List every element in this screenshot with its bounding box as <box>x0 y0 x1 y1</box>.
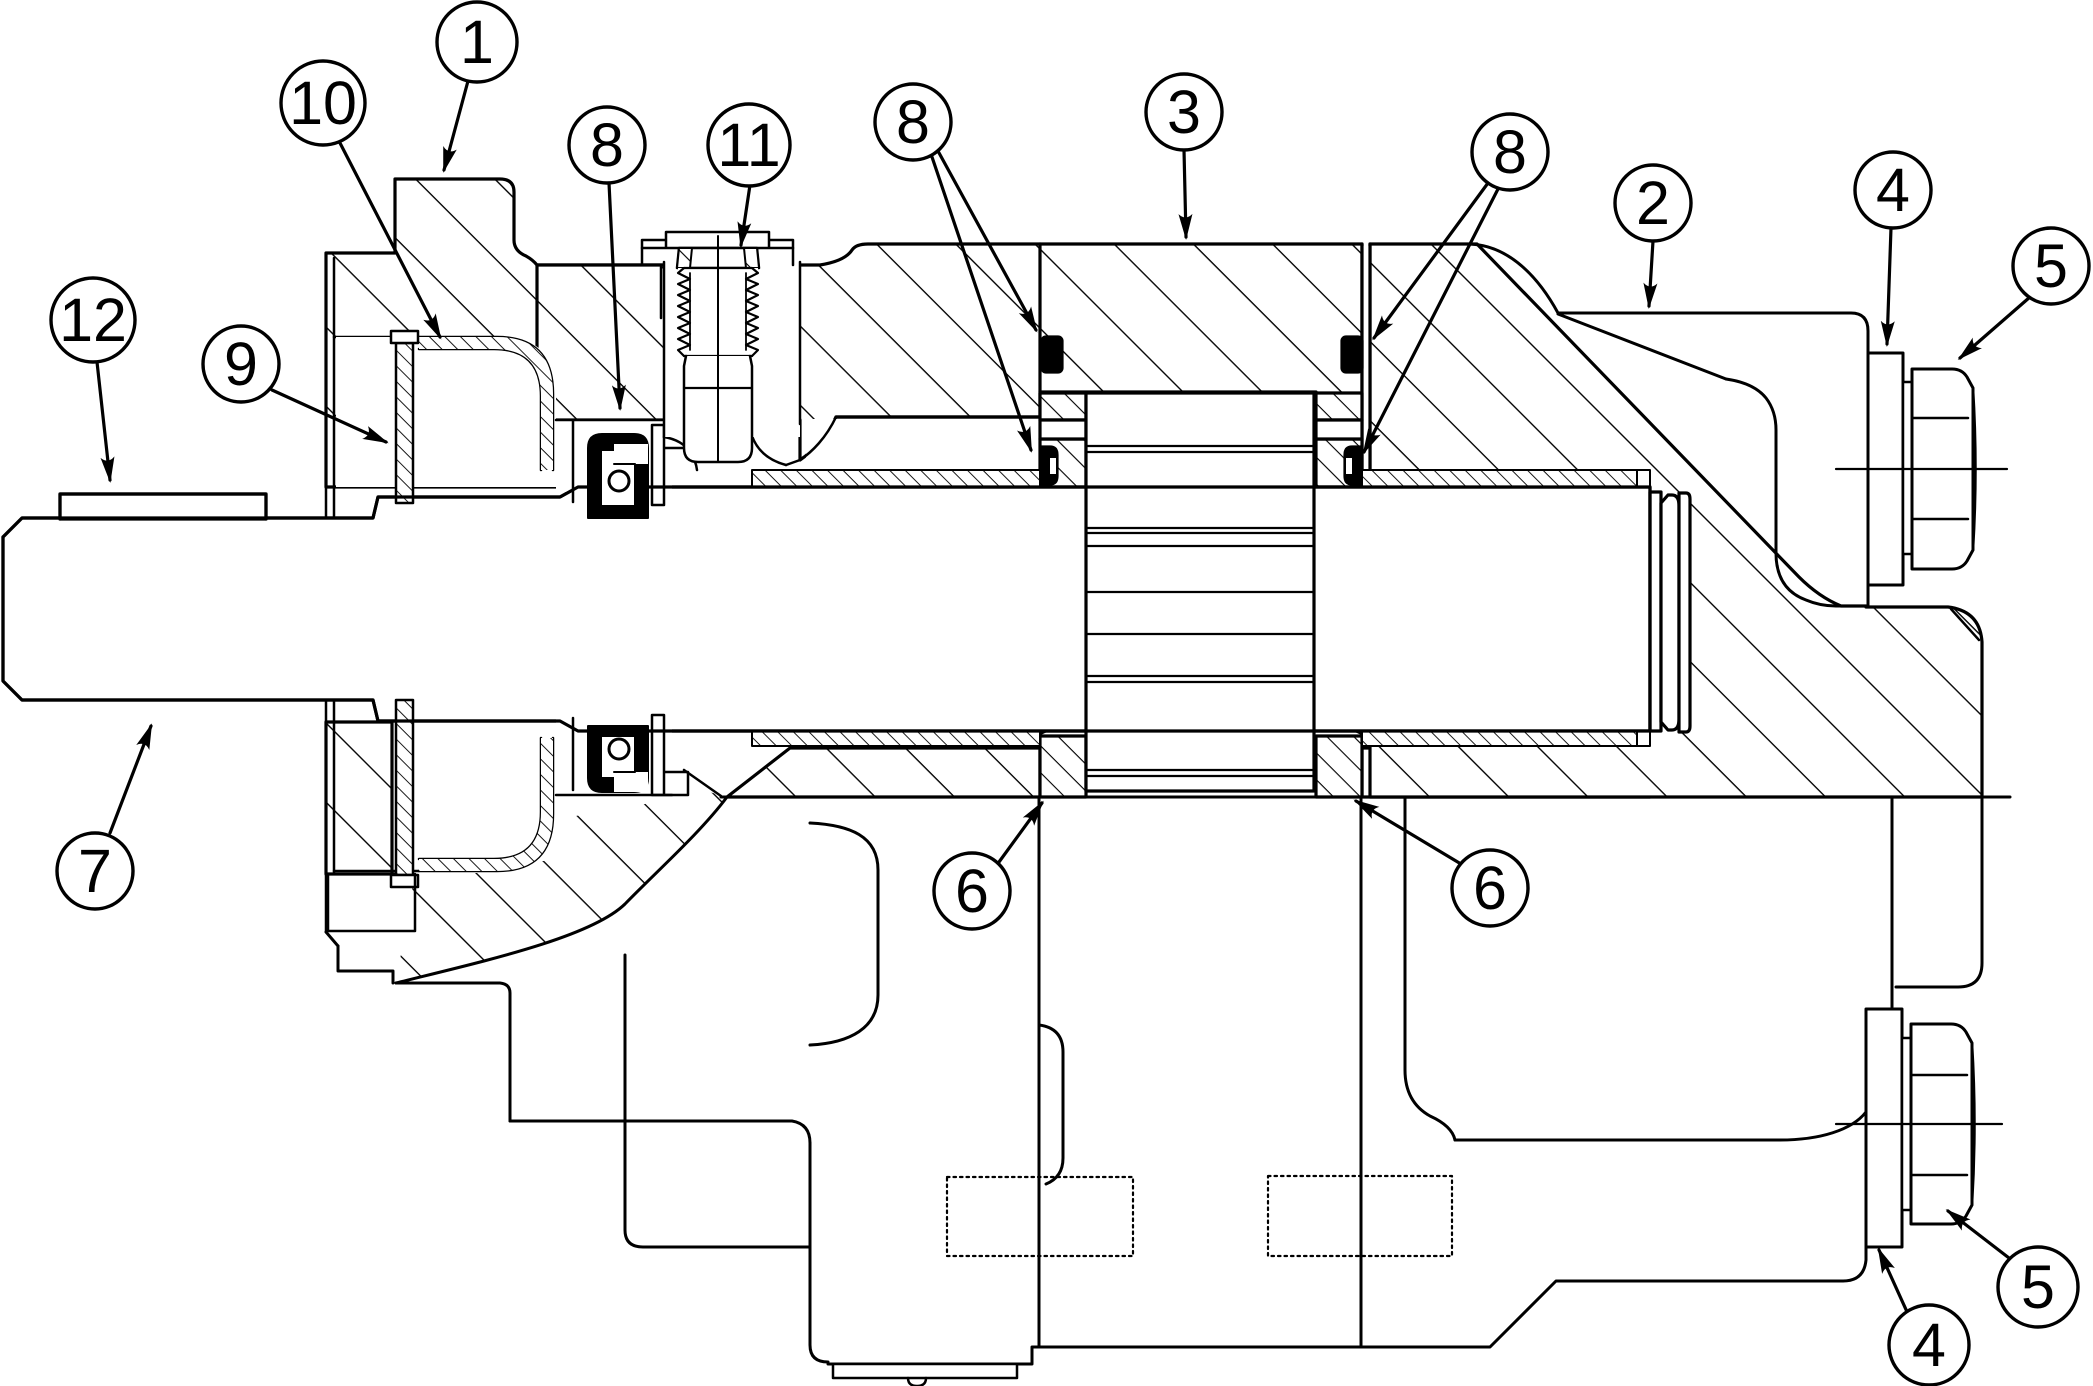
bearing cup outer wall bottom <box>419 738 553 871</box>
leader 4b <box>1879 1250 1908 1314</box>
balloon 4b <box>1889 1305 1969 1385</box>
body lower lip, sectioned <box>727 748 1040 797</box>
shaft outline re-stroke <box>3 487 1650 731</box>
slinger plate bottom <box>396 700 413 875</box>
sleeve lower right (thin hatched) <box>1362 731 1637 746</box>
leader 2 <box>1649 241 1653 306</box>
svg-text:5: 5 <box>2021 1253 2055 1321</box>
upper hex bolt head (part 5) <box>1912 369 1973 569</box>
cover outer top edge <box>1467 244 1868 607</box>
lower seal pocket (white) <box>574 700 664 795</box>
svg-text:4: 4 <box>1876 156 1910 224</box>
slinger plate top (part 9) <box>396 343 413 503</box>
balloon 12 <box>51 278 135 362</box>
svg-text:5: 5 <box>2034 232 2068 300</box>
leader 8b line 1 <box>938 151 1036 330</box>
svg-text:7: 7 <box>78 837 112 905</box>
fitting neck <box>677 248 759 268</box>
cavity left wall x1405 <box>1405 797 1455 1140</box>
rotor spline lines <box>1086 446 1314 452</box>
lower bolt shoulder <box>1902 1038 1911 1210</box>
port tab on x1039 <box>1039 1025 1063 1184</box>
svg-text:8: 8 <box>896 88 930 156</box>
slot below split line (cover exterior) <box>1892 797 1982 1007</box>
bearing cup outer wall top (part 10) <box>419 337 553 470</box>
body lower lip right, sectioned <box>1362 748 1650 797</box>
cavity bottom edge with big fillet <box>1455 1112 1866 1140</box>
left bushing upper body, sectioned <box>1040 439 1086 497</box>
seal retainer upper <box>652 425 688 505</box>
lower hex bolt head (part 5) <box>1911 1024 1972 1224</box>
seal garter spring ball lower <box>609 739 629 759</box>
sleeve lower left (thin hatched) <box>752 731 1040 746</box>
fitting centre passage <box>717 236 719 462</box>
shaft seal lower (part 8): black C-section <box>588 726 648 792</box>
flange foot bottom edges <box>338 946 510 1121</box>
seal square upper-left (part 8) <box>1042 337 1062 372</box>
shaft seal upper (part 8): black C-section <box>588 434 648 518</box>
flange pilot bore top line <box>334 337 419 871</box>
fitting lower shank <box>684 356 752 462</box>
flange bottom edge <box>326 873 396 876</box>
shaft end plate 1 <box>1650 492 1661 731</box>
fitting neck hatched wedge right <box>744 248 759 268</box>
dotted port rectangle left <box>947 1177 1133 1256</box>
seal retainer lower <box>652 715 688 795</box>
leader 5a <box>1960 297 2030 358</box>
outlet end cover, sectioned (part 2) <box>1370 244 1982 797</box>
sleeve lower right end cap <box>1637 731 1650 746</box>
svg-text:10: 10 <box>289 69 357 137</box>
cover corner chamfer <box>1951 609 1979 640</box>
right bushing flange upper, sectioned <box>1316 393 1362 420</box>
boss lower vertical and foot <box>625 955 810 1247</box>
right bushing groove (white) <box>1316 420 1362 439</box>
dotted port rectangle right <box>1268 1176 1452 1256</box>
section split line <box>721 796 2010 799</box>
balloon 9 <box>203 326 279 402</box>
upper seal pocket (white) <box>556 420 672 492</box>
leader 7 <box>110 726 151 833</box>
cover-to-block face right <box>1865 1112 1868 1247</box>
bearing cup wall hatch bottom <box>419 738 553 871</box>
flange mounting face lines <box>326 253 334 932</box>
bolt recess shelf and wall <box>1726 379 1866 606</box>
bearing cup cavity bottom (white) <box>417 733 556 861</box>
lower flange block, sectioned (part 1 bottom) <box>326 722 392 874</box>
svg-text:3: 3 <box>1167 78 1201 146</box>
svg-text:6: 6 <box>955 857 989 925</box>
front mounting flange, sectioned (part 1) <box>326 179 664 487</box>
pocket wall upper <box>572 420 575 502</box>
leader 3 <box>1184 150 1186 237</box>
balloon 8a <box>569 107 645 183</box>
lower seal pocket (white) <box>556 718 672 800</box>
shaft end plate 3 <box>1679 493 1690 732</box>
leader 6b <box>1356 801 1461 864</box>
right bushing bore flare lower <box>1316 722 1362 734</box>
balloon 10 <box>281 61 365 145</box>
rotor and vanes (white block) <box>1086 393 1314 791</box>
fitting thread root lines <box>690 273 746 350</box>
balloon 8c <box>1472 114 1548 190</box>
slinger cap top <box>391 331 418 343</box>
port tab on x810 <box>810 823 878 1045</box>
flange pilot boss (white, elevation) <box>328 874 415 931</box>
svg-text:11: 11 <box>717 111 780 179</box>
shaft end plate 2 (chamfered) <box>1661 495 1679 730</box>
vent fitting (part 11) mounting plate <box>642 232 793 248</box>
upper bolt centerline <box>1836 468 2007 470</box>
svg-text:8: 8 <box>590 111 624 179</box>
fitting recess white channel <box>666 248 793 262</box>
leader 10 <box>340 143 440 337</box>
sleeve upper right (thin hatched) <box>1362 470 1637 487</box>
seal garter spring ball upper <box>609 471 629 491</box>
leader 5b <box>1948 1211 2009 1258</box>
balloon 5a <box>2013 228 2089 304</box>
bolt recess cone edge <box>1558 314 1726 379</box>
svg-text:8: 8 <box>1493 118 1527 186</box>
bearing cup cavity top (white) <box>336 337 556 487</box>
right bushing bore flare upper <box>1316 497 1362 512</box>
flange/body joint lines <box>661 265 668 320</box>
seal lower-right with notch (part 8) <box>1345 447 1361 484</box>
right bushing lower, sectioned <box>1316 736 1362 797</box>
pocket wall lower <box>572 718 575 790</box>
leader 8a <box>609 183 620 408</box>
valve body bottom edge <box>828 1247 1866 1364</box>
white gap above left sleeve (bore clearance) <box>806 419 1038 468</box>
balloon 3 <box>1146 74 1222 150</box>
left bushing lower, sectioned <box>1040 736 1086 797</box>
left bushing flange upper, sectioned <box>1040 393 1086 420</box>
balloon 11 <box>708 104 790 186</box>
flange foot chamfer <box>326 932 338 946</box>
balloon 1 <box>437 2 517 82</box>
housing bottom edge to valve body <box>510 1121 810 1143</box>
svg-text:1: 1 <box>460 8 494 76</box>
lower bolt washer (part 4) <box>1866 1009 1902 1247</box>
shaft key (part 12) <box>60 494 266 519</box>
leader 4a <box>1887 228 1891 344</box>
seal lower-left with notch (part 8) <box>1041 447 1057 484</box>
elbow bulge left of fitting base <box>664 437 697 470</box>
leader 8c line 2 <box>1364 189 1498 452</box>
lower boss cast outline (big sweep) <box>396 797 727 983</box>
elbow bulge right of fitting base <box>786 417 836 465</box>
seal square upper-right (part 8) <box>1342 337 1362 372</box>
fitting threaded shank <box>678 268 758 356</box>
balloon 7 <box>57 833 133 909</box>
upper rotor chamber wall left <box>1038 244 1041 392</box>
lower flange wedge, sectioned <box>396 791 727 983</box>
pocket top edge <box>556 419 664 422</box>
svg-text:9: 9 <box>224 330 258 398</box>
drive shaft (part 7) <box>3 487 1650 731</box>
pump body, sectioned (part 3) <box>537 244 1362 477</box>
leader 9 <box>272 390 386 442</box>
slinger cap bottom <box>391 875 418 887</box>
fitting bore walls <box>664 262 800 437</box>
fitting neck hatched wedge left <box>677 248 692 268</box>
bottom cover plate <box>833 1364 1017 1378</box>
left bushing groove (white) <box>1040 420 1086 439</box>
fitting shank shoulder line <box>684 387 752 389</box>
balloon 6a <box>934 853 1010 929</box>
balloon 2 <box>1615 165 1691 241</box>
leader 8b line 2 <box>932 157 1031 450</box>
svg-text:6: 6 <box>1473 854 1507 922</box>
balloon 4a <box>1855 152 1931 228</box>
rotor chamber top line <box>1040 390 1316 393</box>
svg-text:4: 4 <box>1912 1311 1946 1379</box>
pocket bottom edge <box>556 794 672 797</box>
leader 8c line 1 <box>1374 183 1488 338</box>
upper bolt washer (part 4) <box>1868 353 1903 585</box>
leader 11 <box>741 185 750 245</box>
balloon 8b <box>875 84 951 160</box>
left bushing bore flare lower <box>1040 722 1086 734</box>
fitting recess side steps <box>642 248 793 265</box>
right bushing upper body, sectioned <box>1316 439 1362 497</box>
leader 6a <box>999 803 1042 862</box>
bore line above shaft <box>836 415 1040 418</box>
split line left tick <box>684 770 721 796</box>
valve body left edge <box>810 1143 828 1362</box>
sleeve upper left (thin hatched) <box>752 470 1040 487</box>
balloon 6b <box>1452 850 1528 926</box>
leader 12 <box>97 362 110 480</box>
drain plug bump <box>908 1378 926 1386</box>
left bushing bore flare upper <box>1040 497 1086 512</box>
bearing cup wall hatch top <box>419 337 553 470</box>
lower bolt centerline <box>1836 1123 2002 1125</box>
key outline re-stroke <box>60 494 266 519</box>
sleeve upper right end cap <box>1637 470 1650 487</box>
svg-text:12: 12 <box>59 286 127 354</box>
boss arc right of fitting shank <box>752 436 786 465</box>
valve body vertical joint x1039 <box>1038 797 1041 1347</box>
valve body vertical joint x1361 <box>1360 797 1363 1347</box>
upper bolt shoulder <box>1903 382 1912 554</box>
upper rotor chamber wall right joint (body/cover) <box>1363 246 1369 475</box>
svg-text:2: 2 <box>1636 169 1670 237</box>
leader 1 <box>444 81 468 170</box>
balloon 5b <box>1998 1247 2078 1327</box>
